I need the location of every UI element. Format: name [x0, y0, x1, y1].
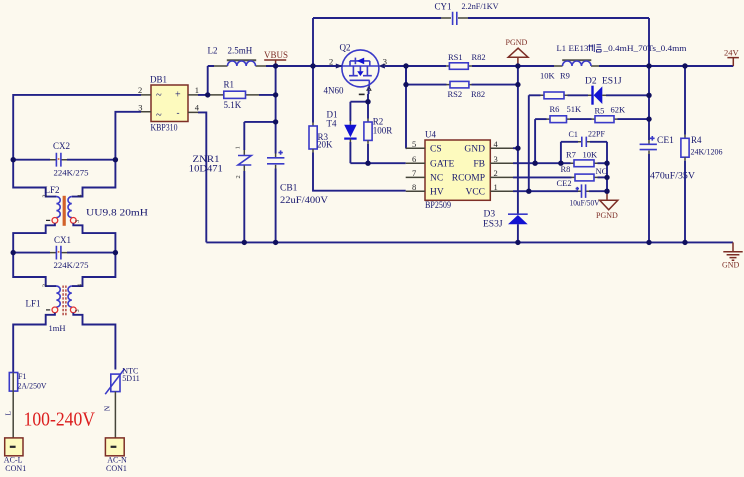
svg-text:EE13: EE13 — [569, 43, 589, 53]
pin 7 NC — [406, 176, 425, 178]
wire: C1 left vertical to FB line — [560, 142, 562, 163]
pin 1 VCC — [490, 190, 513, 192]
svg-text:2: 2 — [235, 175, 242, 178]
svg-text:NC: NC — [430, 174, 443, 184]
resistor R1 5.1K — [208, 79, 276, 110]
bridge rectifier DB1 KBP310 — [138, 75, 200, 133]
svg-text:D2: D2 — [585, 77, 597, 87]
svg-text:L2: L2 — [208, 46, 218, 56]
node R4 rail junction — [682, 63, 687, 68]
node CB1 ground junction — [273, 240, 278, 245]
svg-text:LF2: LF2 — [45, 185, 60, 195]
wire: right rail CX2 to LF2 — [72, 160, 116, 197]
node VBUS rail junction — [273, 63, 278, 68]
wire: CY1 left drop to VBUS rail — [312, 18, 314, 66]
node R2 gate-line junction — [365, 161, 370, 166]
svg-text:ZNR1: ZNR1 — [193, 154, 220, 164]
svg-text:1: 1 — [494, 182, 498, 192]
svg-text:6: 6 — [412, 154, 416, 164]
diode D2 ES1J — [568, 77, 650, 105]
resistor R6 51K — [535, 104, 582, 123]
svg-text:3: 3 — [494, 154, 498, 164]
svg-text:N: N — [102, 405, 111, 411]
svg-text:2: 2 — [329, 56, 333, 66]
svg-text:51K: 51K — [567, 104, 583, 114]
svg-text:2A/250V: 2A/250V — [18, 381, 47, 390]
node ZNR1 branch junction — [273, 119, 278, 124]
node R9/VCC junction — [526, 189, 531, 194]
node D1/R2 top junction — [365, 99, 370, 104]
svg-text:R9: R9 — [560, 71, 570, 81]
svg-text:R6: R6 — [550, 104, 560, 114]
svg-text:GND: GND — [722, 260, 740, 269]
wire: rail L1 to 24V port — [599, 65, 733, 67]
wire: FB line U4 pin3 to R7 — [513, 162, 571, 164]
svg-text:T4: T4 — [327, 118, 337, 128]
wire: RS/PGND node down to U4 GND and D3 — [517, 85, 519, 214]
svg-text:CS: CS — [430, 145, 442, 155]
svg-text:10uF/50V: 10uF/50V — [570, 198, 601, 208]
wire: NTC to AC-N connector — [114, 392, 116, 438]
node CE1 ground junction — [646, 240, 651, 245]
svg-text:BP2509: BP2509 — [425, 200, 451, 210]
svg-text:22PF: 22PF — [588, 130, 605, 139]
node RS right rail junction — [515, 63, 520, 68]
svg-text:PGND: PGND — [506, 38, 528, 47]
svg-text:CON1: CON1 — [5, 464, 26, 473]
node ZNR1 ground junction — [242, 240, 247, 245]
diode D1 T4 — [327, 102, 369, 164]
pin 3 FB — [490, 162, 513, 164]
resistor R8 — [513, 164, 608, 181]
thermistor NTC 5D11 — [105, 367, 140, 395]
svg-text:NC: NC — [596, 166, 608, 176]
resistor R9 10K — [529, 71, 570, 99]
svg-text:4: 4 — [78, 195, 84, 198]
pin 2 RCOMP — [490, 176, 513, 178]
wire: U4 GND pin to ground vertical — [513, 147, 518, 149]
svg-text:+: + — [175, 89, 181, 100]
wire: CY1/R3 vertical from rail — [312, 66, 314, 123]
svg-text:5D11: 5D11 — [122, 374, 139, 383]
svg-text:VCC: VCC — [465, 188, 485, 198]
wire: DB1 pin3 to right filter rail — [115, 112, 141, 160]
svg-text:ES1J: ES1J — [602, 77, 622, 87]
svg-text:R82: R82 — [471, 89, 485, 99]
pin 6 GATE — [406, 162, 425, 164]
svg-text:UU9.8 20mH: UU9.8 20mH — [86, 207, 149, 217]
svg-text:24V: 24V — [724, 48, 740, 58]
wire: R6 to R5 — [570, 118, 592, 120]
svg-text:100R: 100R — [373, 125, 393, 135]
svg-text:RCOMP: RCOMP — [452, 174, 485, 184]
inductor L2 — [208, 46, 267, 67]
svg-text:U4: U4 — [425, 130, 436, 140]
capacitor CE1 470uF/35V — [640, 136, 696, 242]
capacitor C1 22PF — [561, 130, 607, 147]
svg-text:CX1: CX1 — [54, 235, 71, 245]
varistor ZNR1 10D471 — [189, 122, 252, 242]
node CX1 right junction — [113, 250, 118, 255]
node CX2 left junction — [11, 157, 16, 162]
svg-text:FB: FB — [473, 160, 485, 170]
svg-text:R1: R1 — [224, 79, 235, 89]
node RS2 right junction — [515, 82, 520, 87]
svg-text:24K/1206: 24K/1206 — [691, 146, 723, 156]
connector CON1 AC-L — [4, 438, 26, 473]
wire: LF2 bottom right to CX1 — [73, 223, 115, 252]
svg-text:10D471: 10D471 — [189, 163, 223, 173]
wire: CY1 top rail — [313, 17, 649, 19]
capacitor CX2 224K/275 — [13, 141, 115, 177]
svg-text:LF1: LF1 — [26, 298, 41, 308]
svg-text:4N60: 4N60 — [324, 85, 344, 95]
wire: R4 branch vertical — [684, 66, 686, 135]
svg-text:VBUS: VBUS — [264, 50, 288, 60]
svg-text:L: L — [4, 411, 13, 416]
transformer LF2 UU9.8 20mH — [43, 185, 149, 226]
svg-text:10K: 10K — [540, 71, 556, 81]
capacitor CB1 22uF/400V — [267, 150, 328, 242]
node R6/FB junction — [532, 161, 537, 166]
node R4 ground junction — [682, 240, 687, 245]
svg-text:~: ~ — [156, 110, 162, 121]
wire: rail Q2 to RS1 — [385, 65, 446, 67]
svg-text:10K: 10K — [583, 150, 599, 160]
resistor R5 62K — [592, 104, 650, 122]
svg-text:20K: 20K — [317, 140, 333, 150]
resistor RS2 (R82) parallel loop — [406, 66, 518, 99]
fuse F1 2A/250V — [9, 372, 46, 391]
node CX2 right junction — [113, 157, 118, 162]
wire: Q2 gate drop to D1/R2 node — [367, 87, 370, 102]
svg-text:2: 2 — [43, 284, 49, 287]
node CE1 rail junction — [646, 63, 651, 68]
svg-text:470uF/35V: 470uF/35V — [650, 172, 695, 182]
svg-text:CE1: CE1 — [657, 136, 674, 146]
svg-text:2: 2 — [138, 85, 142, 95]
svg-text:R5: R5 — [595, 105, 605, 115]
wire: LF2 bottom left to CX1 — [13, 223, 55, 252]
svg-text:C1: C1 — [569, 130, 578, 139]
svg-text:3: 3 — [75, 220, 81, 223]
svg-text:22uF/400V: 22uF/400V — [280, 196, 328, 206]
node R7 right junction — [604, 161, 609, 166]
capacitor CY1 — [435, 1, 500, 25]
node R5 output junction — [646, 116, 651, 121]
wire: ZNR1 branch from VBUS vertical — [244, 121, 275, 123]
node RS left rail junction — [403, 63, 408, 68]
node R1/VBUS junction — [273, 92, 278, 97]
svg-text:CB1: CB1 — [280, 183, 298, 193]
node CE2/PGND junction — [604, 189, 609, 194]
svg-text:100-240V: 100-240V — [24, 408, 96, 430]
svg-text:3: 3 — [383, 56, 387, 66]
power 24V port — [724, 48, 740, 66]
net label 100-240V — [24, 408, 96, 430]
CJK glyphs 加宽 approximated — [588, 44, 601, 52]
wire: DB1 pin4 down to ground rail — [198, 112, 206, 242]
node R8 right junction — [604, 175, 609, 180]
wire: R9 vertical down to VCC line — [528, 95, 530, 191]
node D3 ground junction — [515, 240, 520, 245]
diode D3 ES3J — [483, 210, 528, 243]
power PGND symbol (top) — [506, 38, 529, 66]
transistor Q2 (4N60 MOSFET in circle) — [324, 43, 388, 96]
svg-text:L1: L1 — [557, 43, 566, 53]
ground GND earth symbol — [722, 242, 743, 269]
wire: right rail CX1 to LF1 — [72, 253, 116, 287]
svg-text:-: - — [177, 108, 180, 118]
wire: CY1 right drop to output rail — [648, 18, 650, 66]
svg-text:D3: D3 — [484, 210, 496, 220]
resistor RS1 (R82) in series on rail — [446, 52, 486, 70]
wire: R3 down to HV line, U4 pin8 — [313, 153, 406, 191]
svg-text:R4: R4 — [691, 135, 702, 145]
svg-text:HV: HV — [430, 188, 444, 198]
pin 4 GND — [490, 147, 513, 149]
node U4 GND pin junction — [515, 146, 520, 151]
wire: left rail CX2 to LF2 — [13, 160, 56, 197]
svg-text:5.1K: 5.1K — [224, 100, 242, 110]
svg-text:R7: R7 — [566, 150, 576, 160]
node D2 output junction — [646, 93, 651, 98]
wire: R6 vertical to FB line — [534, 119, 536, 163]
svg-text:62K: 62K — [611, 104, 627, 114]
wire: CS sense line from RS node to U4 pin5 — [405, 66, 407, 148]
svg-text:KBP310: KBP310 — [151, 122, 178, 132]
wire: C1 right vertical down (R7/R8/PGND node) — [606, 142, 608, 191]
wire: left rail CX1 to LF1 — [13, 253, 56, 287]
op-amp U4 BP2509 controller — [406, 130, 513, 210]
node N neutral label — [102, 405, 111, 411]
wire: DB1 pin2 to left rail — [13, 95, 141, 160]
svg-text:GND: GND — [464, 145, 485, 155]
svg-text:DB1: DB1 — [150, 75, 167, 85]
wire: ground bottom rail — [206, 241, 733, 243]
wire: LF1 bottom left to fuse F1 — [13, 313, 55, 373]
svg-text:CY1: CY1 — [435, 2, 452, 12]
svg-text:4: 4 — [78, 284, 84, 287]
svg-text:2.2nF/1KV: 2.2nF/1KV — [462, 1, 500, 11]
svg-text:GATE: GATE — [430, 160, 454, 170]
wire: rail RS1 to L1 — [472, 65, 554, 67]
connector CON1 AC-N — [105, 438, 127, 473]
svg-text:8: 8 — [412, 182, 416, 192]
svg-text:3: 3 — [75, 309, 81, 312]
svg-text:RS1: RS1 — [448, 52, 463, 62]
svg-text:1: 1 — [195, 85, 199, 95]
node C1/FB junction — [558, 161, 563, 166]
capacitor CE2 10uF/50V — [513, 178, 607, 208]
resistor R3 20K — [309, 123, 333, 153]
svg-text:224K/275: 224K/275 — [54, 167, 89, 177]
power PGND symbol (bottom) — [596, 191, 618, 220]
capacitor CX1 224K/275 — [13, 235, 115, 270]
svg-text:2: 2 — [494, 168, 498, 178]
inductor L1 — [554, 43, 687, 66]
resistor R2 100R — [364, 102, 392, 164]
svg-text:5: 5 — [412, 139, 416, 149]
transformer LF1 1mH — [26, 284, 84, 333]
svg-text:~: ~ — [156, 90, 162, 101]
wire: LF1 bottom right to NTC — [73, 313, 115, 370]
pin 5 CS — [406, 147, 425, 149]
svg-text:4: 4 — [195, 103, 200, 113]
node CX1 left junction — [11, 250, 16, 255]
resistor R4 24K/1206 — [681, 135, 723, 243]
svg-text:2.5mH: 2.5mH — [228, 46, 253, 56]
svg-text:224K/275: 224K/275 — [54, 260, 89, 270]
wire: F1 to AC-L connector — [12, 391, 14, 438]
svg-text:1mH: 1mH — [49, 323, 66, 333]
node DB1 pin1 junction — [205, 92, 210, 97]
wire: VBUS vertical down to CB1 — [275, 66, 277, 154]
wire: rectified rail from DB1 pin1 riser to Q2 — [208, 65, 342, 67]
svg-text:Q2: Q2 — [340, 43, 351, 53]
svg-text:CE2: CE2 — [557, 178, 572, 188]
svg-text:_0.4mH_70Ts_0.4mm: _0.4mH_70Ts_0.4mm — [602, 43, 686, 53]
pin 8 HV — [406, 190, 425, 192]
svg-text:CX2: CX2 — [53, 141, 70, 151]
svg-text:RS2: RS2 — [448, 89, 463, 99]
wire: GATE line D1 to U4 pin6 — [350, 162, 405, 164]
wire: DB1 pin1 riser to L2 — [198, 66, 208, 95]
svg-text:7: 7 — [412, 168, 416, 178]
svg-text:1: 1 — [235, 146, 242, 149]
node VBUS net label — [264, 50, 288, 66]
wire: output vertical CY1/CE1 — [648, 66, 650, 140]
svg-text:CON1: CON1 — [106, 464, 127, 473]
svg-text:ES3J: ES3J — [483, 220, 503, 230]
svg-text:PGND: PGND — [596, 211, 618, 220]
node L phase label — [4, 411, 13, 416]
node R3/CY1 rail junction — [310, 63, 315, 68]
resistor R7 10K — [566, 150, 607, 167]
svg-text:F1: F1 — [18, 372, 26, 381]
node RS2 left junction — [403, 82, 408, 87]
svg-text:R82: R82 — [472, 52, 486, 62]
